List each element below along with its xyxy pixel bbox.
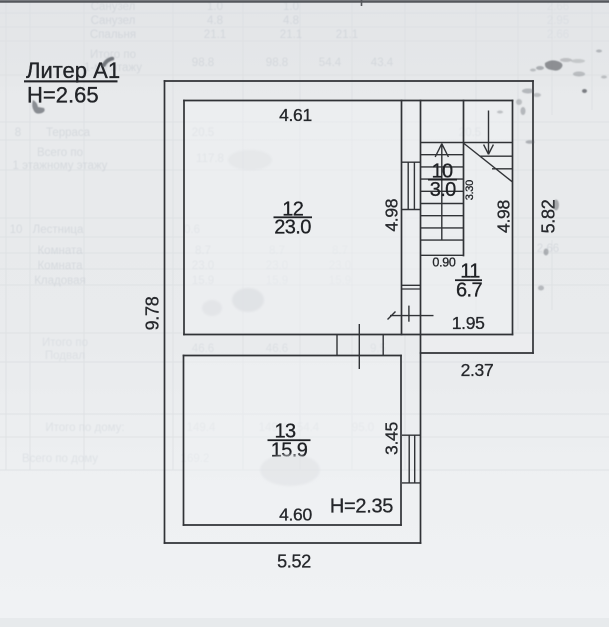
svg-text:Спальня: Спальня [90,29,136,41]
arrow down shaft [488,111,490,155]
svg-text:Санузел: Санузел [91,15,136,27]
window symbol upper wall [402,162,421,209]
stair treads left flight [421,154,464,156]
stair landing line [421,142,513,144]
svg-text:1 этажному этажу: 1 этажному этажу [13,160,108,172]
svg-text:Кладовая: Кладовая [34,275,86,287]
svg-text:4.60: 4.60 [279,505,312,525]
smudge near title [101,57,114,67]
stair treads right flight [480,155,513,157]
wall room13 right inner [400,356,402,526]
wall stairwell left long [420,101,422,544]
svg-text:Всего по дому: Всего по дому [22,453,98,465]
wall room13 top inner [184,355,402,357]
svg-text:Итого по: Итого по [42,337,88,349]
svg-text:3.45: 3.45 [382,422,402,455]
svg-text:4.8: 4.8 [207,15,223,27]
svg-text:21.1: 21.1 [336,29,358,41]
vertical tick [408,306,410,322]
svg-text:23.0: 23.0 [274,216,311,238]
wall room12 right [401,101,403,335]
svg-text:2.95: 2.95 [547,15,569,27]
svg-text:46.6: 46.6 [192,343,214,355]
svg-text:Комната: Комната [37,245,83,257]
svg-text:3.0: 3.0 [430,179,456,201]
arrow up shaft [441,144,443,240]
staircase [421,111,513,256]
wall inner left lower [183,356,185,526]
svg-text:4.98: 4.98 [381,199,401,232]
svg-text:Терраса: Терраса [46,127,91,139]
top border tick [361,0,363,6]
svg-text:5.52: 5.52 [277,552,311,572]
svg-text:1.0: 1.0 [283,1,299,13]
smudge cluster top right [516,50,607,106]
room 11 label [455,261,482,302]
svg-text:1.95: 1.95 [452,313,485,333]
soft blotches [202,150,320,486]
svg-text:Лестница: Лестница [33,224,84,236]
wall inner bottom rooms 12 and 11 [184,334,513,336]
svg-text:54.4: 54.4 [319,57,342,69]
svg-text:4.61: 4.61 [279,105,312,125]
title underline [24,80,118,82]
svg-text:3.30: 3.30 [464,180,476,200]
svg-text:46.6: 46.6 [266,343,288,355]
svg-text:98.8: 98.8 [266,57,288,69]
stair left flight bottom [421,254,464,256]
svg-text:21.1: 21.1 [204,29,226,41]
svg-text:0.90: 0.90 [432,256,455,270]
wall outer right [532,81,534,353]
wall room13 bottom inner [184,524,402,526]
window symbol lower right wall [402,435,421,483]
wall inner left upper [183,101,185,335]
room 13 label [268,421,311,462]
room 10 label [428,161,457,201]
svg-text:4.8: 4.8 [283,15,299,27]
wall inner top [184,100,513,102]
svg-text:Итого по дому:: Итого по дому: [45,422,124,434]
svg-text:Подвал: Подвал [45,350,85,362]
svg-text:Н=2.65: Н=2.65 [27,83,99,108]
svg-text:9.78: 9.78 [143,296,163,330]
svg-text:1.0: 1.0 [207,1,223,13]
svg-text:2.66: 2.66 [547,1,569,13]
title: Литер А1 [24,58,120,108]
door jamb left [336,335,338,356]
wall outer top [165,80,534,82]
svg-text:8: 8 [15,127,21,139]
wall outer bottom [165,542,421,544]
room interior lightening [185,101,512,334]
svg-text:21.1: 21.1 [280,29,302,41]
top page border line [0,0,609,2]
svg-text:Н=2.35: Н=2.35 [330,496,393,518]
door jamb right [382,335,384,356]
smudges right margin [497,107,559,291]
wall stair divider [463,101,465,256]
arrow up head [435,144,442,157]
door tick [358,324,360,369]
svg-text:2.66: 2.66 [547,29,569,41]
wall tick pair mid [402,285,421,289]
room 12 label [274,199,313,239]
svg-text:4.98: 4.98 [493,200,513,233]
arrow down head [484,145,489,155]
svg-text:Комната: Комната [37,260,83,272]
wall stairwell right inner [512,101,514,335]
svg-text:Всего по: Всего по [37,147,83,159]
dimension tick line 1.95 [337,306,434,369]
svg-text:2.37: 2.37 [461,360,494,380]
faint bleed-through table grid [0,0,609,470]
svg-text:6.7: 6.7 [456,280,482,302]
faint bleed-through table text [10,1,570,465]
wall outer step [421,352,534,354]
stair break diagonal [464,144,513,183]
smudge below H=2.65 [32,100,44,114]
svg-text:98.8: 98.8 [192,57,214,69]
svg-text:Санузел: Санузел [91,1,136,13]
wall outer left [164,81,166,543]
svg-text:43.4: 43.4 [371,57,394,69]
svg-text:10: 10 [10,224,23,236]
